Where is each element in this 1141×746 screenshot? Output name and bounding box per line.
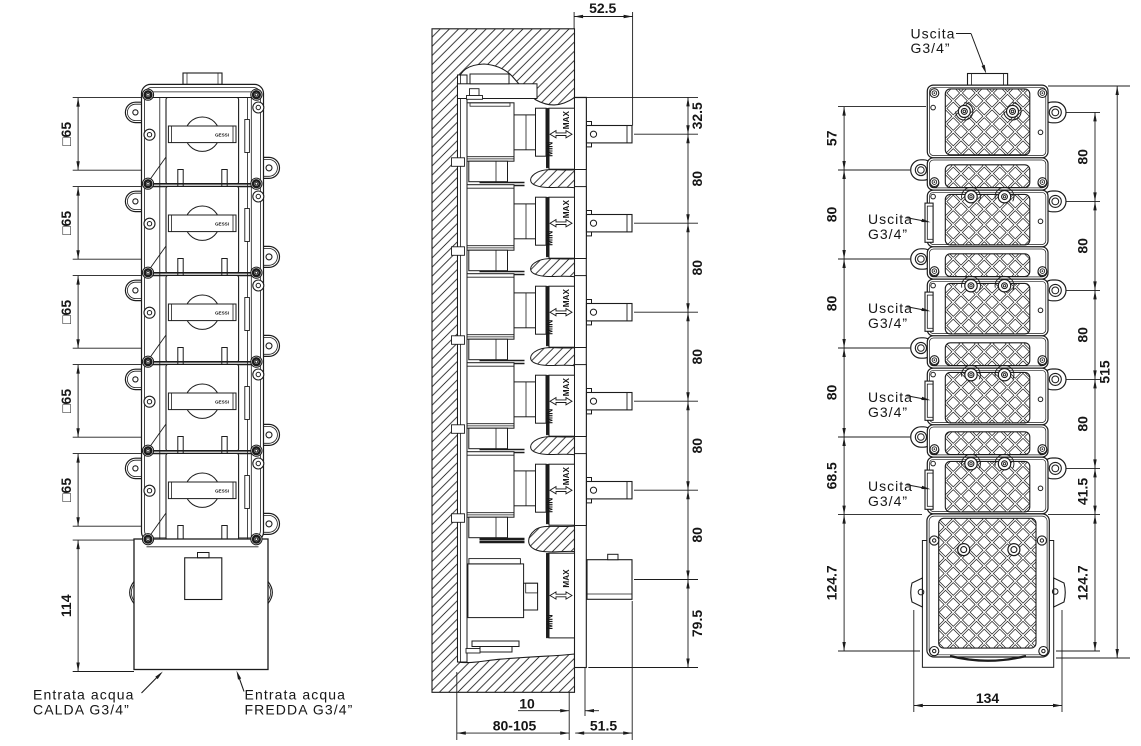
back plate 8 (band) <box>927 425 1048 457</box>
ext 515 bottom <box>1056 657 1130 659</box>
left rail small ear module 4 <box>144 396 155 407</box>
back small hole right 4 <box>1038 397 1043 402</box>
min-max arrow module 4 <box>550 398 572 405</box>
front mixer inner square tab <box>198 553 210 558</box>
wall hatched section <box>432 29 575 693</box>
svg-text:80: 80 <box>689 171 705 187</box>
right rail small ear module 1 <box>253 102 264 113</box>
left inner rail <box>159 98 161 540</box>
left ear hole module 1 <box>133 110 138 115</box>
ext line box bottom <box>73 671 134 673</box>
back corner screw (934,272) <box>930 268 939 277</box>
right ear module 2 <box>243 246 280 267</box>
section module 5 stem hole <box>590 487 596 493</box>
front screw row 4 x148 <box>142 356 153 367</box>
section module 3 neck <box>536 286 547 334</box>
section chain ext y223 <box>634 222 698 224</box>
section module 5 stem <box>587 482 633 499</box>
front module 3 gap line b <box>145 364 261 366</box>
svg-text:MIN: MIN <box>546 320 555 335</box>
back right ear 5 <box>1042 458 1066 479</box>
back plate 7 (big) <box>927 368 1048 425</box>
plate boss 4 <box>452 425 465 434</box>
ext left ear 2 <box>838 258 910 260</box>
left ear hole module 4 <box>133 377 138 382</box>
back outlet tab 2 (uscita) <box>925 292 933 331</box>
right rail small ear module 2 <box>253 191 264 202</box>
section module 4 flange <box>575 365 587 437</box>
svg-text:134: 134 <box>976 690 1000 706</box>
front module 1 label band <box>168 126 236 143</box>
back mixer corner screw (934,651) <box>930 647 939 656</box>
front module 1 gap line a <box>145 183 261 185</box>
back lattice 2 <box>945 165 1030 188</box>
section module 1 min-max plate <box>549 108 575 169</box>
right inner rail line b <box>250 98 252 540</box>
section module 2 stem base <box>587 211 592 236</box>
right inner rail line a <box>247 98 249 540</box>
dim line 65 module 5 <box>77 454 79 527</box>
section module 4 stem base <box>587 389 592 414</box>
svg-text:80: 80 <box>689 527 705 543</box>
back small hole right 1 <box>1038 130 1043 135</box>
right ear hole module 3 <box>266 343 272 349</box>
back module 2 washers <box>962 187 981 201</box>
section module 4 stem hole <box>590 398 596 404</box>
back module 3 washers <box>962 276 981 290</box>
section module 3 flange <box>575 276 587 348</box>
svg-text:80-105: 80-105 <box>493 718 537 734</box>
wall blob between outlets 4/5 <box>531 437 575 455</box>
dim line 134 <box>914 705 1062 707</box>
svg-text:□65: □65 <box>58 122 74 146</box>
left rail small ear module 2 <box>144 218 155 229</box>
back left ear 1 <box>911 160 934 180</box>
right rail small ear module 4 <box>253 369 264 380</box>
section module 3 min-max plate <box>549 286 575 347</box>
back module 4 washers <box>962 365 981 379</box>
svg-text:Uscita: Uscita <box>868 300 913 316</box>
front module 5 <box>166 454 239 540</box>
ext right ear 4 <box>1066 378 1100 380</box>
front screw row 6 x148 <box>142 534 153 545</box>
section mixer seat <box>546 553 548 638</box>
svg-text:114: 114 <box>58 594 74 617</box>
ext line box top <box>73 539 134 541</box>
section module 1 stem hole <box>590 131 596 137</box>
section top cap <box>470 74 509 84</box>
back plate 5 (big) <box>927 279 1048 336</box>
svg-text:MIN: MIN <box>546 614 555 629</box>
front module 3 rail diagonal <box>148 335 167 361</box>
section module 3 stem <box>587 304 633 321</box>
svg-text:515: 515 <box>1097 360 1113 384</box>
ext 515 top <box>1048 85 1130 87</box>
back view left dim chain <box>843 107 845 651</box>
ext line module 2 top <box>73 186 142 188</box>
ext bottom right part <box>1056 650 1100 652</box>
front screw row 3 x148 <box>142 267 153 278</box>
ext 52.5 left <box>573 12 575 29</box>
svg-text:80: 80 <box>1075 149 1091 165</box>
front module 2 knob circle <box>185 206 219 240</box>
svg-text:68.5: 68.5 <box>824 462 840 489</box>
back outlet tab 4 (uscita) <box>925 470 933 509</box>
top band line 2 <box>152 91 252 93</box>
back corner screw (1042,182) <box>1038 178 1047 187</box>
back plate 6 (band) <box>927 336 1048 368</box>
svg-text:57: 57 <box>824 130 840 146</box>
back mixer bottom arc <box>950 656 1026 661</box>
svg-text:MIN: MIN <box>546 142 555 157</box>
section joint band 2 <box>480 271 525 273</box>
leader uscita top horizontal <box>956 33 971 35</box>
left ear module 3 <box>125 280 146 300</box>
svg-text:41.5: 41.5 <box>1075 478 1091 505</box>
ext 80-105 left <box>456 672 458 740</box>
front module 2 gap line a <box>145 272 261 274</box>
back lattice 6 <box>945 343 1030 366</box>
section module 2 min-max plate <box>549 197 575 258</box>
back small hole left 5 <box>931 461 936 466</box>
ext 51.5 right <box>631 601 633 740</box>
ext line module 5 top <box>73 453 142 455</box>
section mixer cap <box>469 559 521 564</box>
min-max arrow module 3 <box>550 309 572 316</box>
mixer bottom step 1 <box>472 641 519 647</box>
svg-text:□65: □65 <box>58 211 74 235</box>
front module 2 label band <box>168 215 236 232</box>
section module 4 <box>467 363 514 429</box>
plate boss 1 <box>452 158 465 167</box>
back mixer plate <box>927 514 1049 657</box>
section module 1 stem <box>587 126 633 143</box>
ext bottom left part <box>838 650 920 652</box>
svg-text:MIN: MIN <box>546 498 555 513</box>
back right ear 2 <box>1042 191 1066 212</box>
back mixer corner screw (934,540) <box>930 536 939 545</box>
section module 5 stem base <box>587 478 592 503</box>
front module 4 rail diagonal <box>148 424 167 450</box>
dim line 10 (left part) <box>518 710 569 712</box>
mixer knob <box>587 560 632 600</box>
section module 1 <box>467 103 514 161</box>
ext 515-line left part <box>838 514 922 516</box>
top band line <box>147 97 259 99</box>
ext 134 left <box>913 610 915 712</box>
section module 4 piston <box>514 382 536 417</box>
section module 4 neck <box>536 375 547 423</box>
back small hole right 2 <box>1038 219 1043 224</box>
section module 3 stem base <box>587 300 592 325</box>
back corner screw (1042,183) <box>1038 179 1047 188</box>
svg-text:MAX: MAX <box>562 378 571 397</box>
back lattice 8 <box>945 432 1030 455</box>
section joint band 5 <box>480 538 525 540</box>
left ear module 2 <box>125 191 146 211</box>
back left ear 4 <box>911 427 934 447</box>
svg-text:MAX: MAX <box>562 289 571 308</box>
front module 4 lower tab right <box>222 437 227 455</box>
dim line 65 module 2 <box>77 187 79 260</box>
section top bolt washer <box>467 96 483 100</box>
back corner screw (934,539) <box>930 535 939 544</box>
front mixer left bump <box>130 582 134 604</box>
right rail slot module 3 <box>245 298 250 331</box>
front module 2 lower tab right <box>222 259 227 277</box>
back corner screw (1042,539) <box>1038 535 1047 544</box>
right ear hole module 2 <box>266 254 272 260</box>
back corner screw (934,361) <box>930 357 939 366</box>
svg-text:□65: □65 <box>58 300 74 324</box>
back plate 2 (band) <box>927 158 1048 190</box>
front module 3 <box>166 276 239 362</box>
right ear module 4 <box>243 424 280 445</box>
front module 3 gap line a <box>145 361 261 363</box>
back corner screw (1042,361) <box>1038 357 1047 366</box>
ext right ear 2 <box>1066 200 1100 202</box>
back plate 9 (big) <box>927 457 1048 514</box>
front screw row 1 x148 <box>142 89 153 100</box>
section module 5 piston <box>514 471 536 506</box>
ext right ear 5 <box>1066 467 1100 469</box>
section module 1 neck <box>536 108 547 156</box>
dim line 65 module 4 <box>77 365 79 438</box>
svg-text:80: 80 <box>1075 416 1091 432</box>
dim line 65 module 1 <box>77 98 79 171</box>
section module 3 bottom step <box>469 339 508 360</box>
svg-text:GESSI: GESSI <box>215 399 229 404</box>
front module 5 knob circle <box>185 473 219 507</box>
back corner screw (934,360) <box>930 356 939 365</box>
svg-text:Entrata acqua: Entrata acqua <box>33 687 134 703</box>
svg-text:124.7: 124.7 <box>1075 565 1091 600</box>
min-max arrow module 2 <box>550 220 572 227</box>
section module 4 min-max plate <box>549 375 575 436</box>
min-max arrow module 5 <box>550 487 572 494</box>
back small hole left 1 <box>931 105 936 110</box>
front module 1 lower tab left <box>178 170 183 188</box>
section top housing <box>458 84 538 99</box>
svg-text:GESSI: GESSI <box>215 221 229 226</box>
section module 5 min-max plate <box>549 464 575 525</box>
section joint band 3 <box>480 360 525 362</box>
right ear hole module 5 <box>266 521 272 527</box>
front module 3 lower tab left <box>178 348 183 366</box>
svg-text:MIN: MIN <box>546 231 555 246</box>
svg-text:G3/4”: G3/4” <box>911 40 951 56</box>
section module 2 <box>467 185 514 251</box>
ext line module 2 bottom <box>73 258 147 260</box>
svg-text:80: 80 <box>824 385 840 401</box>
ext 515-line right part <box>1048 514 1100 516</box>
ext 57 top <box>838 106 926 108</box>
back right ear 1 <box>1042 102 1066 123</box>
svg-text:32.5: 32.5 <box>689 102 705 129</box>
plate boss 3 <box>452 336 465 345</box>
svg-text:124.7: 124.7 <box>824 565 840 600</box>
svg-text:G3/4”: G3/4” <box>868 226 908 242</box>
ext line module 4 top <box>73 364 142 366</box>
back outlet tab 3 (uscita) <box>925 381 933 420</box>
section module 1 stem base <box>587 122 592 147</box>
back mixer flange square <box>922 541 1053 668</box>
mixer knob notch <box>608 554 618 559</box>
section module 5 <box>467 452 514 518</box>
back mixer lattice <box>939 518 1036 648</box>
section chain line <box>687 97 689 667</box>
front mixer inner square <box>185 558 222 600</box>
svg-text:Entrata acqua: Entrata acqua <box>245 687 346 703</box>
dim line 65 module 3 <box>77 276 79 349</box>
front module 1 lower tab right <box>222 170 227 188</box>
back right ear 4 <box>1042 369 1066 390</box>
back corner screw (1042,450) <box>1038 446 1047 455</box>
svg-text:MIN: MIN <box>546 409 555 424</box>
section joint band mixer <box>480 539 525 541</box>
svg-text:MAX: MAX <box>562 111 571 130</box>
dim line 114 <box>77 540 79 671</box>
right ear module 1 <box>243 157 280 178</box>
section module 2 seat <box>546 197 548 257</box>
right rail slot module 5 <box>245 476 250 509</box>
right ear module 5 <box>243 513 280 534</box>
back corner screw (934,93) <box>930 89 939 98</box>
leader uscita side 1 <box>907 218 928 222</box>
ext left ear 1 <box>838 169 910 171</box>
svg-text:MAX: MAX <box>562 569 571 588</box>
leader cold inlet <box>238 675 244 692</box>
section mixer piston <box>524 583 538 610</box>
svg-text:80: 80 <box>1075 238 1091 254</box>
back lattice 4 <box>945 254 1030 277</box>
svg-text:80: 80 <box>689 349 705 365</box>
back left ear 3 <box>911 338 934 358</box>
svg-text:Uscita: Uscita <box>868 211 913 227</box>
leader uscita side 2 <box>907 307 928 311</box>
left rail small ear module 5 <box>144 485 155 496</box>
ext 80-105 right / 10 left <box>568 692 570 740</box>
back corner screw (1042,271) <box>1038 267 1047 276</box>
right ear module 3 <box>243 335 279 356</box>
front module 4 lower tab left <box>178 437 183 455</box>
front module 1 knob circle <box>185 117 219 151</box>
left ear hole module 3 <box>133 288 138 293</box>
svg-text:80: 80 <box>1075 327 1091 343</box>
leader uscita side 3 <box>907 396 928 400</box>
back corner screw (934,183) <box>930 179 939 188</box>
section joint band 4 <box>480 449 525 451</box>
section module 5 seat <box>546 464 548 524</box>
front module 4 label band <box>168 393 236 410</box>
front module 2 <box>166 187 239 273</box>
section module 3 seat <box>546 286 548 346</box>
front screw row 5 x256 <box>251 445 262 456</box>
front module 1 gap line b <box>145 186 261 188</box>
right ear hole module 1 <box>266 165 272 171</box>
svg-text:GESSI: GESSI <box>215 310 229 315</box>
svg-text:80: 80 <box>689 438 705 454</box>
section chain ext y579 <box>634 579 698 581</box>
back right ear 3 <box>1042 280 1066 301</box>
section module 3 piston <box>514 293 536 328</box>
svg-text:Uscita: Uscita <box>911 26 956 42</box>
front module 2 lower tab left <box>178 259 183 277</box>
svg-text:52.5: 52.5 <box>589 0 616 16</box>
svg-text:G3/4”: G3/4” <box>868 404 908 420</box>
min-max arrow mixer <box>550 592 572 599</box>
section chain ext y401 <box>634 400 698 402</box>
front mixer box <box>134 539 268 670</box>
back small hole left 2 <box>931 194 936 199</box>
section module 1 seat <box>546 108 548 168</box>
section module 3 <box>467 274 514 340</box>
right rail slot module 2 <box>245 209 250 242</box>
left rail small ear module 3 <box>144 307 155 318</box>
left ear hole module 5 <box>133 466 138 471</box>
front module 4 gap line b <box>145 453 261 455</box>
front module 5 rail diagonal <box>148 513 167 539</box>
svg-text:79.5: 79.5 <box>689 610 705 637</box>
section module 3 stem hole <box>590 309 596 315</box>
ext right ear 3 <box>1066 289 1100 291</box>
svg-text:MAX: MAX <box>562 467 571 486</box>
svg-text:80: 80 <box>824 296 840 312</box>
ext 134 right <box>1061 610 1063 712</box>
front frame outer <box>142 84 264 541</box>
section chain ext bottom <box>588 667 698 669</box>
ext line module 1 top <box>73 97 142 99</box>
section module 1 piston <box>514 115 536 150</box>
svg-text:FREDDA G3/4”: FREDDA G3/4” <box>245 702 354 718</box>
front module 5 lower tab left <box>178 526 183 541</box>
wall blob above mixer <box>529 526 575 552</box>
back mixer corner screw (1043,651) <box>1039 647 1048 656</box>
back top outlet tab <box>968 74 1008 86</box>
front module 5 lower tab right <box>222 526 227 541</box>
ext 52.5 right / stem plane <box>632 12 634 126</box>
back small hole right 3 <box>1038 308 1043 313</box>
section module 4 stem <box>587 393 633 410</box>
back corner screw (934,450) <box>930 446 939 455</box>
left ear module 5 <box>125 458 146 478</box>
svg-text:10: 10 <box>519 696 535 712</box>
section chain ext top <box>575 96 699 98</box>
back lattice 3 <box>945 194 1030 245</box>
section mixer min-max plate <box>549 553 575 638</box>
section module 1 bottom step <box>469 161 508 182</box>
front screw row 5 x148 <box>142 445 153 456</box>
top cap tab <box>183 73 222 84</box>
right rail slot module 1 <box>245 120 250 153</box>
front module 4 <box>166 365 239 451</box>
back left ear 2 <box>911 249 934 269</box>
ext left ear 3 <box>838 347 910 349</box>
front screw row 4 x256 <box>251 356 262 367</box>
front screw bottom row x256 (over box) <box>251 534 262 545</box>
mounting plate inner line <box>459 75 461 662</box>
front screw row 2 x256 <box>251 178 262 189</box>
back lattice 7 <box>945 372 1030 423</box>
svg-text:MAX: MAX <box>562 200 571 219</box>
back plate 3 (big) <box>927 190 1048 247</box>
mixer bottom step 2 <box>480 647 512 653</box>
front screw bottom row x148 (over box) <box>142 534 153 545</box>
wall blob between outlets 2/3 <box>531 259 575 277</box>
back small hole left 4 <box>931 372 936 377</box>
section module 4 bottom step <box>469 428 508 449</box>
section mixer <box>468 564 524 618</box>
